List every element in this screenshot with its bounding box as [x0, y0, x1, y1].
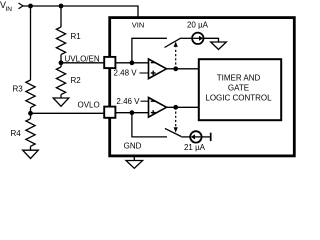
- input terminal: [19, 3, 24, 9]
- wire current source to rail bar: [202, 136, 211, 138]
- svg-text:2.48 V: 2.48 V: [114, 69, 138, 78]
- V_IN label: [0, 0, 12, 13]
- wire UVLO node up to switch rail: [132, 38, 167, 63]
- wire R4 to ground: [30, 146, 32, 150]
- node UVLO comparator input: [130, 60, 135, 65]
- svg-text:GND: GND: [124, 142, 142, 151]
- node R3/R4 junction: [28, 111, 33, 116]
- wire R3 bottom to R4 top: [30, 108, 32, 119]
- voltage reference 2.48 V: [114, 69, 149, 78]
- resistor R4: [11, 119, 36, 147]
- dashed control line up to switch S1: [174, 42, 178, 69]
- wire from VIN rail down to R1: [60, 6, 62, 27]
- svg-text:R4: R4: [11, 129, 22, 138]
- svg-text:OVLO: OVLO: [78, 101, 100, 110]
- wire UVLO node to pin box: [61, 62, 104, 64]
- node U2 output: [173, 105, 178, 110]
- svg-text:UVLO/EN: UVLO/EN: [65, 54, 100, 63]
- IC block: [110, 18, 295, 156]
- node U1 output: [173, 66, 178, 71]
- wire comparator U1 output to timer block: [167, 68, 199, 70]
- resistor R2: [56, 67, 81, 95]
- rail bar terminator: [210, 133, 212, 141]
- svg-text:R1: R1: [71, 32, 82, 41]
- ground below R4: [23, 150, 39, 158]
- wire current source to ground: [204, 38, 219, 42]
- wire OVLO node down to switch rail: [132, 113, 167, 137]
- ground below GND pin: [126, 161, 143, 169]
- svg-text:VIN: VIN: [132, 20, 145, 29]
- wire switch S2 to current source: [181, 136, 190, 138]
- svg-text:2.46 V: 2.46 V: [116, 97, 140, 106]
- resistor R1: [56, 27, 81, 55]
- wire R1 bottom to R2 top: [60, 55, 62, 67]
- node junction VIN rail to R1: [59, 4, 64, 9]
- wire GND stub: [133, 157, 135, 161]
- wire switch S1 to current source: [181, 37, 192, 39]
- current source 20uA: [187, 21, 209, 45]
- pin UVLO/EN box: [104, 57, 115, 68]
- block timer and gate logic control: [199, 59, 281, 120]
- svg-text:R3: R3: [13, 85, 24, 94]
- resistor R3: [13, 80, 36, 108]
- wire OVLO pin to comparator input: [116, 112, 149, 114]
- svg-text:GATE: GATE: [228, 83, 249, 92]
- pin OVLO box: [104, 107, 115, 118]
- svg-text:LOGIC CONTROL: LOGIC CONTROL: [205, 93, 272, 102]
- wire UVLO pin to comparator input: [116, 62, 149, 64]
- op-amp U1 UVLO comparator: [149, 59, 167, 79]
- switch S1 lever: [165, 38, 182, 48]
- svg-text:TIMER AND: TIMER AND: [217, 73, 261, 82]
- wire VIN rail down to R3: [30, 6, 32, 80]
- svg-text:IN: IN: [6, 6, 13, 13]
- svg-text:21 µA: 21 µA: [184, 143, 206, 152]
- node junction VIN rail to R3: [28, 4, 33, 9]
- wire OVLO node to pin box: [31, 112, 105, 114]
- op-amp U2 OVLO comparator: [149, 98, 167, 118]
- node OVLO comparator input: [130, 110, 135, 115]
- voltage reference 2.46 V: [116, 97, 148, 106]
- node UVLO/EN: [59, 54, 100, 65]
- svg-text:R2: R2: [71, 76, 82, 85]
- ground right of 20uA source: [211, 42, 227, 50]
- svg-text:20 µA: 20 µA: [187, 21, 209, 30]
- wire R2 to ground: [60, 95, 62, 98]
- wire VIN rail: [23, 6, 138, 18]
- dashed control line down to switch S2: [174, 107, 178, 132]
- switch S2 lever: [165, 128, 181, 136]
- current source 21uA: [184, 131, 206, 152]
- ground below R2: [53, 98, 69, 106]
- wire comparator U2 output to timer block: [167, 106, 199, 108]
